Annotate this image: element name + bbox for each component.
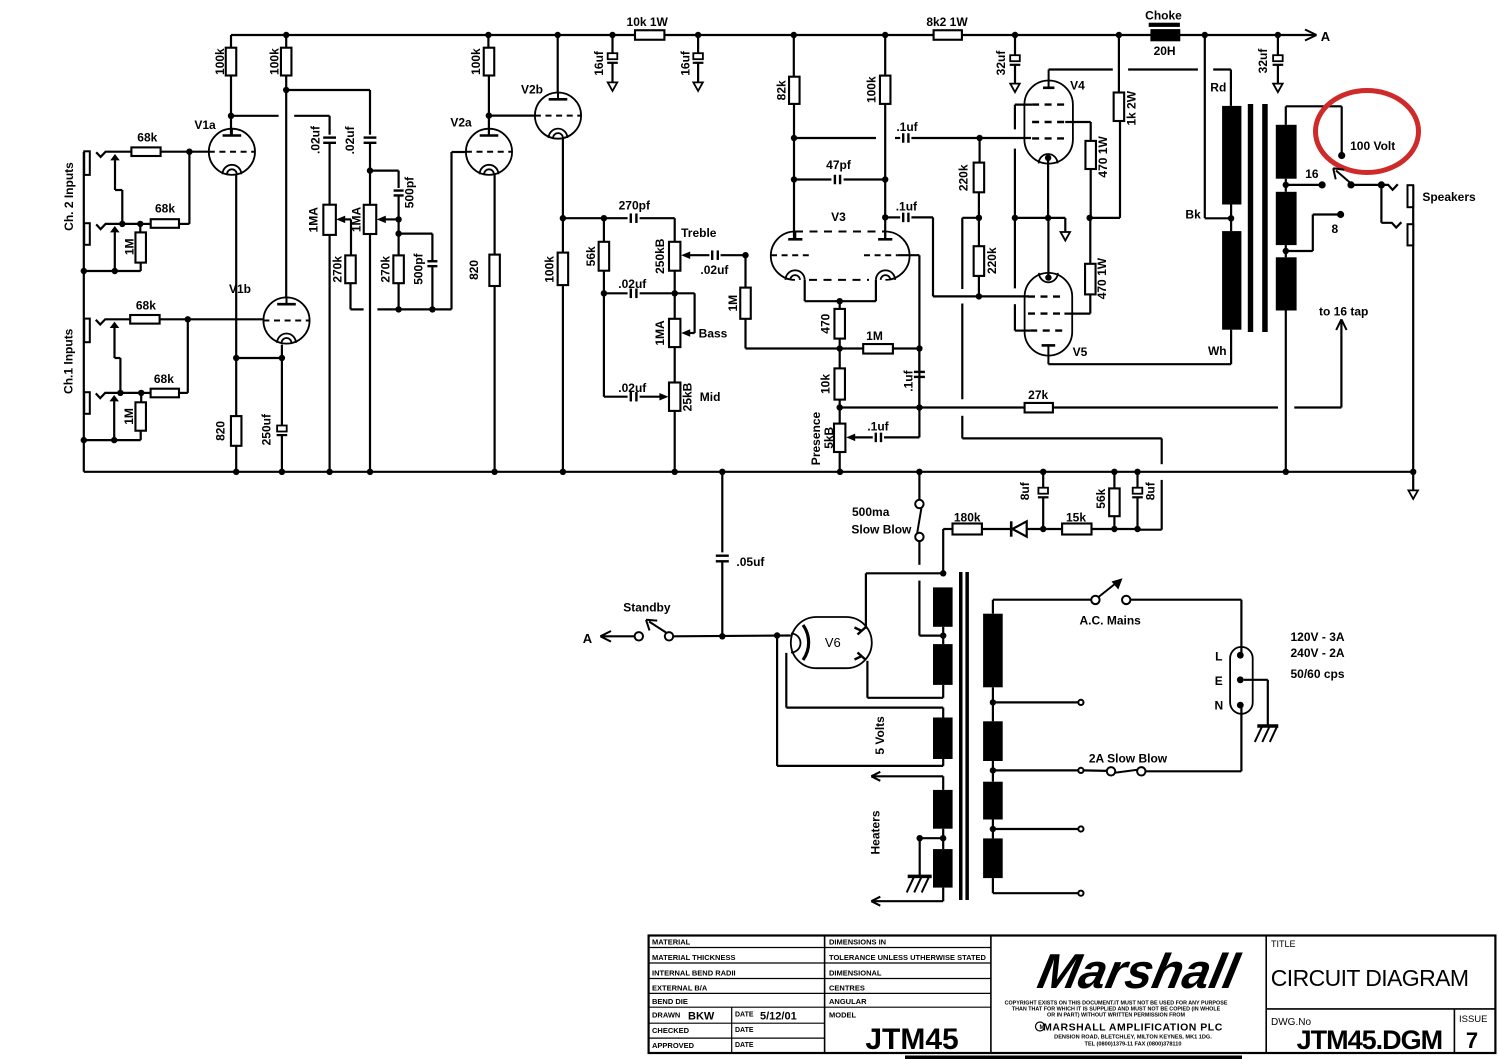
- jack Ch2-2 shorting arrow: [110, 226, 120, 232]
- svg-text:.1uf: .1uf: [867, 420, 889, 434]
- resistor 820 (V1 cathode): [231, 416, 242, 446]
- svg-text:V4: V4: [1070, 79, 1085, 93]
- wire: standby to V6 filament (B+): [673, 634, 791, 637]
- wire: secondary top to 100V tap: [1285, 106, 1287, 125]
- svg-text:8uf: 8uf: [1018, 481, 1032, 500]
- title block left column rows: [649, 947, 825, 949]
- pot 1MA (bright vol): [364, 205, 377, 234]
- wire: Ch1 ground row: [84, 439, 141, 441]
- svg-text:MATERIAL: MATERIAL: [652, 938, 691, 947]
- V6 plate top: [858, 627, 866, 635]
- svg-text:Wh: Wh: [1208, 344, 1227, 358]
- wire: to 500pf2 top: [399, 233, 433, 235]
- impedance selector switch: [1347, 181, 1354, 188]
- svg-text:MODEL: MODEL: [829, 1011, 857, 1020]
- resistor 1k 2W (screen feed): [1116, 32, 1122, 38]
- capacitor 8uf (bias filter 1): [1040, 469, 1046, 475]
- V5 screen dashes: [1028, 312, 1064, 314]
- svg-text:Marshall: Marshall: [1033, 943, 1245, 998]
- resistor 820 (V2a cathode): [489, 255, 500, 286]
- svg-text:8: 8: [1331, 222, 1338, 236]
- chassis ground (mains earth): [1257, 724, 1278, 728]
- jack Ch2-1 tip: [96, 152, 189, 157]
- svg-text:120V - 3A: 120V - 3A: [1291, 630, 1345, 644]
- resistor 68k (Ch2-2 grid stop): [140, 223, 150, 225]
- svg-text:.02uf: .02uf: [618, 381, 647, 395]
- wire: V3 right grid to NFB node: [898, 254, 920, 256]
- svg-text:270pf: 270pf: [619, 199, 651, 213]
- wire: V4 grid: [980, 137, 1031, 139]
- svg-text:Ch.1 Inputs: Ch.1 Inputs: [62, 328, 76, 394]
- capacitor 32uf (screen filter): [1012, 32, 1018, 38]
- svg-text:MATERIAL THICKNESS: MATERIAL THICKNESS: [652, 953, 735, 962]
- resistor 10k (PI tail 2): [834, 368, 845, 399]
- node: OT primary center tap Bk: [1228, 215, 1234, 221]
- capacitor .02uf (V1b coupling): [364, 136, 377, 138]
- capacitor 16uf (filter): [609, 32, 615, 38]
- resistor 68k (Ch1-2 grid stop): [141, 392, 150, 394]
- power transformer HT winding top: [933, 587, 953, 626]
- svg-text:1k 2W: 1k 2W: [1125, 90, 1139, 125]
- pot 250kB Treble: [669, 242, 680, 271]
- wire: V6 filament bottom to 5V top: [785, 653, 787, 708]
- node: jacks link: [119, 221, 125, 227]
- V5 g1 dashes: [1028, 295, 1064, 297]
- capacitor .1uf (to V5): [882, 214, 888, 220]
- wire: V5 plate to OT Wh: [1048, 363, 1231, 365]
- wire: earth pin: [1244, 679, 1268, 681]
- PT 5V winding: [933, 718, 953, 760]
- wire: V2b plate to rail: [555, 32, 561, 38]
- resistor 15k: [1043, 528, 1062, 530]
- svg-text:7: 7: [1466, 1028, 1478, 1053]
- wire: screen rail: [1090, 217, 1120, 219]
- wire: 1MA2 bottom to ground rail: [369, 234, 371, 472]
- node: V1a grid junction: [186, 149, 192, 155]
- V5 cathode: [1039, 273, 1058, 282]
- resistor 1M (Ch1 grid leak): [140, 393, 142, 402]
- svg-text:DIMENSIONAL: DIMENSIONAL: [829, 969, 882, 978]
- node: PI tail junction: [837, 345, 843, 351]
- capacitor .1uf (to V4): [791, 135, 797, 141]
- PT primary winding 1: [983, 614, 1003, 688]
- wire: 1MA wiper to 270k: [336, 216, 345, 224]
- node: V1b plate branch: [283, 87, 289, 93]
- svg-text:100 Volt: 100 Volt: [1350, 139, 1395, 153]
- svg-text:240V - 2A: 240V - 2A: [1291, 646, 1345, 660]
- wire: preamp B+ top rail (A line): [231, 34, 1317, 36]
- wire: treble wiper with .02uf: [681, 251, 690, 259]
- wire: heater output bottom: [942, 888, 944, 902]
- svg-text:APPROVED: APPROVED: [652, 1041, 695, 1050]
- V5 beam plates dashes: [1030, 329, 1064, 331]
- wire: V4 plate to OT Rd: [1049, 68, 1113, 70]
- svg-text:8uf: 8uf: [1143, 481, 1157, 500]
- wire: switch to speakers: [1351, 184, 1381, 186]
- tube V1b: [263, 297, 309, 343]
- svg-text:V1b: V1b: [229, 282, 251, 296]
- svg-text:1MA: 1MA: [653, 320, 667, 346]
- choke 20H: [1149, 23, 1180, 27]
- resistor 100k (V1a plate): [230, 35, 232, 48]
- svg-text:OR IN PART) WITHOUT WRITTEN PE: OR IN PART) WITHOUT WRITTEN PERMISSION F…: [1047, 1013, 1185, 1019]
- pot 1MA Bass: [669, 319, 680, 347]
- node: PI grid node: [742, 252, 748, 258]
- speaker jack bodies: [1412, 185, 1414, 472]
- tube V5 envelope: [1025, 273, 1073, 356]
- resistor 8k2 1W (B+ dropper): [934, 30, 962, 40]
- jack Ch1-2 tip: [96, 393, 141, 398]
- svg-text:Presence: Presence: [809, 411, 823, 465]
- svg-text:.02uf: .02uf: [308, 125, 322, 154]
- resistor 100k (V2a plate): [485, 32, 491, 38]
- resistor 100k (V3 plate R): [882, 32, 888, 38]
- svg-text:100k: 100k: [268, 48, 282, 75]
- ground (16uf 2): [693, 82, 703, 91]
- svg-text:A: A: [583, 631, 593, 646]
- mains plug L E N: [1230, 647, 1253, 714]
- svg-text:68k: 68k: [137, 131, 157, 145]
- PT primary winding 4: [983, 838, 1003, 878]
- title block col4 divider: [1266, 1008, 1495, 1010]
- svg-text:CHECKED: CHECKED: [652, 1026, 690, 1035]
- tube V2a: [466, 129, 512, 175]
- svg-text:50/60 cps: 50/60 cps: [1291, 667, 1345, 681]
- ground (32uf): [1010, 84, 1020, 93]
- svg-text:270k: 270k: [378, 256, 392, 283]
- svg-text:to 16 tap: to 16 tap: [1319, 305, 1368, 319]
- PT heater winding top: [933, 790, 953, 829]
- ground (32uf 2): [1273, 84, 1283, 93]
- svg-text:5/12/01: 5/12/01: [760, 1011, 797, 1023]
- capacitor 32uf (main filter): [1275, 32, 1281, 38]
- wire: main ground rail bottom: [84, 471, 1413, 473]
- OT secondary winding 3: [1276, 257, 1297, 310]
- svg-text:1MA: 1MA: [307, 207, 321, 233]
- capacitor .02uf (treble out): [711, 250, 713, 260]
- svg-text:V2b: V2b: [521, 83, 543, 97]
- svg-text:15k: 15k: [1066, 511, 1086, 525]
- svg-text:500pf: 500pf: [403, 176, 417, 208]
- PT primary winding 2: [983, 721, 1003, 761]
- svg-text:A.C. Mains: A.C. Mains: [1080, 614, 1142, 628]
- svg-text:.1uf: .1uf: [896, 200, 918, 214]
- resistor 82k (V3 plate L): [791, 32, 797, 38]
- V6 filament bump: [791, 634, 801, 653]
- svg-text:Bk: Bk: [1185, 208, 1201, 222]
- svg-text:EXTERNAL B/A: EXTERNAL B/A: [652, 983, 708, 992]
- resistor 180k: [953, 524, 982, 535]
- node: ground rail junctions: [233, 469, 239, 475]
- wire: V6 bottom plate to HT bottom: [866, 661, 868, 698]
- capacitor 500pf (bright): [394, 189, 404, 191]
- svg-text:Treble: Treble: [681, 226, 717, 240]
- switch A.C. Mains: [1091, 596, 1099, 604]
- wire: input ground rail left: [83, 152, 85, 472]
- pot 25kB Mid: [669, 383, 680, 411]
- svg-text:1M: 1M: [866, 329, 883, 343]
- wire: mains L: [1130, 599, 1241, 601]
- svg-text:Speakers: Speakers: [1422, 190, 1476, 204]
- wire: V5 grid: [979, 295, 1029, 297]
- fuse 2A Slow Blow: [1084, 769, 1107, 772]
- svg-text:1M: 1M: [122, 238, 136, 255]
- wire: V1b grid: [188, 318, 264, 320]
- resistor 220k (V5 grid): [974, 246, 985, 276]
- svg-text:V5: V5: [1073, 345, 1088, 359]
- capacitor 500pf (mix): [427, 260, 437, 262]
- svg-text:10k 1W: 10k 1W: [627, 15, 669, 29]
- speaker jack 2 tip: [1381, 222, 1401, 227]
- svg-text:BEND DIE: BEND DIE: [652, 997, 688, 1006]
- svg-text:180k: 180k: [954, 511, 981, 525]
- pot 1MA (normal vol): [323, 205, 336, 235]
- svg-text:82k: 82k: [775, 80, 789, 100]
- svg-text:100k: 100k: [213, 48, 227, 75]
- jack Ch1-1 body: [84, 319, 90, 343]
- jack Ch2-1 shorting arrow: [110, 154, 120, 160]
- wire: V4 beam plates to cathode rail: [1015, 103, 1032, 105]
- V4 g1 dashes: [1032, 137, 1064, 139]
- svg-text:8k2 1W: 8k2 1W: [926, 15, 968, 29]
- resistor 470 1W (V4 screen): [1085, 141, 1096, 169]
- svg-text:TEL (0800)1379-11 FAX (0800)37: TEL (0800)1379-11 FAX (0800)378110: [1085, 1042, 1182, 1048]
- V3 cathode left: [786, 270, 805, 280]
- resistor 100k (V1b plate): [283, 32, 289, 38]
- svg-text:220k: 220k: [985, 247, 999, 274]
- svg-text:100k: 100k: [543, 256, 557, 283]
- svg-text:V3: V3: [831, 210, 846, 224]
- svg-text:470 1W: 470 1W: [1096, 136, 1110, 178]
- svg-text:N: N: [1214, 699, 1223, 713]
- ground (output cathodes): [1061, 232, 1071, 241]
- svg-text:500ma: 500ma: [852, 505, 890, 519]
- wire: V4 screen to 470 1W: [1065, 121, 1091, 123]
- resistor 470 1W (V5 screen): [1085, 264, 1096, 295]
- svg-text:V6: V6: [825, 635, 841, 650]
- svg-text:TOLERANCE UNLESS UTHERWISE ST: TOLERANCE UNLESS UTHERWISE STATED: [829, 953, 987, 962]
- ground (speaker return): [1410, 469, 1416, 475]
- resistor 68k (Ch2-1 grid stop): [131, 147, 160, 156]
- wire: V5 screen to 470 1W: [1064, 313, 1090, 315]
- wire: heater output top: [942, 776, 944, 790]
- svg-text:25kB: 25kB: [681, 382, 695, 411]
- svg-text:Bass: Bass: [699, 327, 728, 341]
- red circle annotation: [1316, 91, 1419, 173]
- svg-text:47pf: 47pf: [826, 158, 852, 172]
- speaker jack 1 tip: [1381, 184, 1397, 190]
- svg-text:2A Slow Blow: 2A Slow Blow: [1089, 752, 1168, 766]
- OT core: [1248, 104, 1253, 332]
- svg-text:500pf: 500pf: [411, 252, 425, 284]
- jack Ch1-2 body: [84, 392, 90, 414]
- svg-text:ISSUE: ISSUE: [1459, 1014, 1488, 1025]
- Marshall Amplification text: [1036, 1022, 1045, 1031]
- wire: Ch2 ground row: [84, 270, 141, 272]
- resistor 1M (PI grid leak): [744, 255, 746, 287]
- node: V1b grid junction: [185, 316, 191, 322]
- svg-text:DATE: DATE: [735, 1027, 754, 1034]
- fuse 500ma: [916, 469, 922, 475]
- diode (bias rectifier): [982, 528, 1011, 530]
- svg-text:DENSION ROAD, BLETCHLEY, MILTO: DENSION ROAD, BLETCHLEY, MILTON KEYNES, …: [1054, 1035, 1212, 1041]
- wire: V5 beam plates: [1015, 330, 1030, 332]
- svg-text:V1a: V1a: [194, 118, 216, 132]
- capacitor 8uf (bias filter 2): [1134, 469, 1140, 475]
- node: HT center tap: [940, 632, 946, 638]
- tube V1a: [209, 129, 255, 175]
- resistor 10k 1W (dropper): [635, 30, 664, 40]
- svg-text:Mid: Mid: [700, 390, 721, 404]
- svg-text:Standby: Standby: [623, 601, 671, 615]
- svg-text:27k: 27k: [1028, 388, 1048, 402]
- tube V6 rectifier envelope: [791, 617, 872, 668]
- svg-text:CENTRES: CENTRES: [829, 983, 865, 992]
- resistor 220k (V4 grid): [976, 135, 982, 141]
- resistor 270k (normal): [345, 255, 356, 283]
- jack Ch1-2 shorting arrow: [109, 395, 119, 401]
- svg-text:ANGULAR: ANGULAR: [829, 997, 867, 1006]
- svg-text:.02uf: .02uf: [618, 277, 647, 291]
- node: primary tap 2 (fused): [990, 767, 996, 773]
- svg-text:5kB: 5kB: [822, 426, 836, 448]
- tube V4 envelope: [1024, 81, 1073, 164]
- wire: NFB to 16 tap arrow: [1294, 406, 1341, 408]
- node: V1a plate branch: [228, 113, 234, 119]
- wire: V2a cathode: [494, 175, 496, 255]
- svg-text:DATE: DATE: [735, 1042, 754, 1049]
- svg-text:.05uf: .05uf: [736, 555, 765, 569]
- svg-text:INTERNAL BEND RADII: INTERNAL BEND RADII: [652, 969, 736, 978]
- svg-text:.1uf: .1uf: [901, 369, 915, 391]
- svg-text:1MA: 1MA: [349, 207, 363, 233]
- capacitor 270pf (treble): [604, 217, 628, 219]
- node: 500pf top junction: [367, 167, 373, 173]
- bias feed from 220k junction: [961, 218, 963, 289]
- jack Ch2-2 tip: [96, 224, 140, 229]
- V4 cathode: [1039, 154, 1058, 163]
- svg-text:.1uf: .1uf: [896, 120, 918, 134]
- V3 grid dashes: [771, 254, 812, 256]
- resistor 1M (Ch2 grid leak): [139, 224, 141, 233]
- negative feedback line 27k: [919, 406, 1024, 408]
- power transformer HT winding bottom: [933, 644, 953, 685]
- node: 8 ohm tap: [1283, 248, 1289, 254]
- arrowhead to A: [1305, 30, 1317, 36]
- wire: presence wiper: [846, 434, 855, 442]
- bottom crop bar: [905, 1056, 1242, 1059]
- svg-text:100k: 100k: [864, 76, 878, 103]
- resistor 68k (Ch1-1 grid stop): [130, 315, 159, 324]
- V6 plate bottom: [858, 653, 866, 661]
- svg-text:250kB: 250kB: [653, 238, 667, 274]
- title block col2 rows: [825, 947, 991, 949]
- jack Ch2-2 body: [84, 223, 90, 245]
- resistor 56k (tone): [603, 218, 605, 242]
- svg-text:BKW: BKW: [688, 1011, 715, 1023]
- svg-text:CIRCUIT DIAGRAM: CIRCUIT DIAGRAM: [1271, 965, 1469, 991]
- svg-text:TITLE: TITLE: [1271, 939, 1296, 949]
- svg-text:68k: 68k: [136, 298, 156, 312]
- jack Ch1-1 shorting arrow: [110, 322, 120, 328]
- capacitor .05uf (standby filter): [719, 469, 725, 475]
- svg-text:56k: 56k: [1094, 488, 1108, 508]
- V4 plate: [1043, 87, 1054, 90]
- pot 5kB Presence: [834, 424, 845, 452]
- wire: HT to 180k: [940, 570, 946, 576]
- svg-text:Rd: Rd: [1210, 81, 1226, 95]
- svg-text:32uf: 32uf: [994, 50, 1008, 76]
- node: V2a plate to V2b grid: [486, 112, 492, 118]
- svg-text:5 Volts: 5 Volts: [873, 716, 887, 755]
- wire: primary bottom tap: [992, 878, 994, 893]
- capacitor .02uf (mid): [603, 293, 605, 396]
- node: primary tap 1: [990, 699, 996, 705]
- svg-text:220k: 220k: [956, 164, 970, 191]
- PT heater winding bottom: [933, 849, 953, 888]
- V3 cathode right: [876, 270, 895, 280]
- svg-text:470: 470: [818, 313, 832, 333]
- svg-text:Choke: Choke: [1145, 9, 1182, 23]
- node: 16 ohm tap: [1283, 182, 1289, 188]
- wire: bass wiper loop: [675, 292, 695, 294]
- tube V2b: [535, 93, 581, 139]
- wire: secondary bottom to ground rail: [1285, 311, 1287, 472]
- node: primary tap 3: [990, 826, 996, 832]
- wire: 1MA bottom to ground rail: [329, 235, 331, 472]
- svg-text:56k: 56k: [584, 246, 598, 266]
- svg-text:1M: 1M: [726, 295, 740, 312]
- svg-text:DATE: DATE: [735, 1012, 754, 1019]
- tube V3 envelope: [771, 232, 795, 280]
- svg-text:MARSHALL AMPLIFICATION PLC: MARSHALL AMPLIFICATION PLC: [1043, 1022, 1223, 1034]
- svg-text:Heaters: Heaters: [868, 810, 882, 854]
- wire: bass to mid: [674, 347, 676, 382]
- capacitor 250uf (V1 cathode bypass): [281, 345, 283, 425]
- svg-text:16uf: 16uf: [592, 50, 606, 76]
- resistor 56k (bias bleed): [1111, 469, 1117, 475]
- wire: mix node to V2a grid: [377, 308, 451, 310]
- svg-text:V2a: V2a: [450, 116, 472, 130]
- svg-text:68k: 68k: [154, 372, 174, 386]
- chassis ground (heater CT): [908, 875, 932, 879]
- svg-text:20H: 20H: [1154, 44, 1176, 58]
- svg-text:1M: 1M: [122, 408, 136, 425]
- node: cathode follower tap: [560, 215, 566, 221]
- wire: V1a cathode to 820: [235, 174, 237, 416]
- capacitor .1uf (NFB blocking): [918, 349, 920, 372]
- V6 filament arc: [803, 625, 809, 660]
- capacitor 47pf (PI bridge): [791, 176, 797, 182]
- wire: mid bottom to rail: [674, 411, 676, 472]
- jack Ch1-1 tip: [96, 319, 188, 324]
- node: 100 Volt tap: [1338, 152, 1345, 159]
- svg-text:.02uf: .02uf: [343, 125, 357, 154]
- svg-text:E: E: [1215, 674, 1223, 688]
- svg-text:.02uf: .02uf: [700, 263, 729, 277]
- wire: primary top to mains switch: [992, 600, 994, 614]
- svg-text:100k: 100k: [469, 48, 483, 75]
- OT secondary winding 1: [1276, 125, 1297, 179]
- V3 left plate: [788, 238, 802, 241]
- svg-text:JTM45.DGM: JTM45.DGM: [1297, 1025, 1443, 1055]
- svg-text:DIMENSIONS IN: DIMENSIONS IN: [829, 938, 886, 947]
- PT core: [959, 572, 963, 900]
- V3 right plate: [878, 238, 892, 241]
- node: choke out to OT center tap: [1202, 32, 1208, 38]
- jack Ch2-1 body: [84, 151, 90, 175]
- svg-text:32uf: 32uf: [1256, 48, 1270, 74]
